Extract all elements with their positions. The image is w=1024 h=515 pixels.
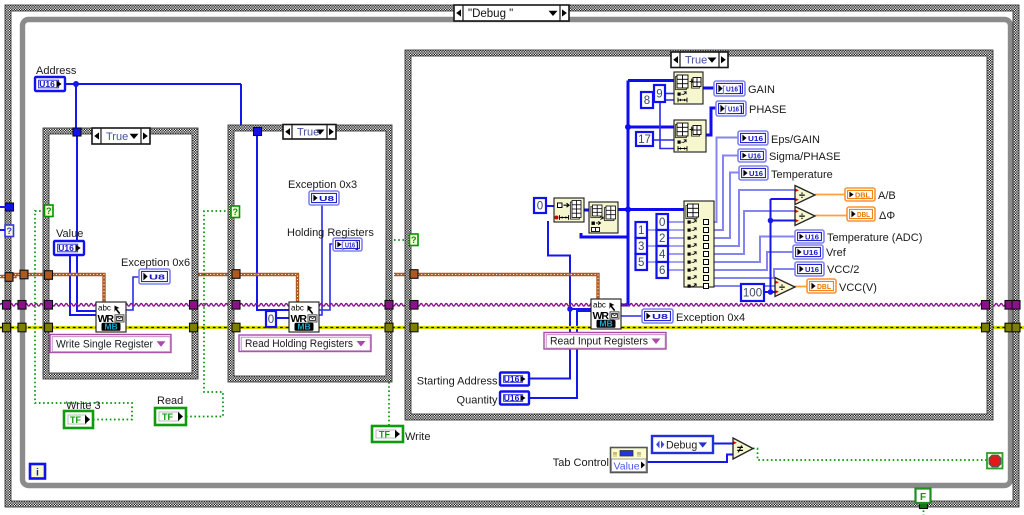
svg-text:17: 17	[638, 134, 651, 146]
svg-text:A/B: A/B	[878, 190, 896, 202]
property node Tab Control Value	[611, 448, 648, 473]
wire index const 0	[669, 221, 684, 223]
wire VISA resource	[0, 304, 1020, 307]
tunnel error outer right	[1012, 323, 1020, 332]
control Read TF	[155, 408, 186, 425]
node Array Subset 2	[674, 120, 706, 152]
tunnel VISA case1 right	[190, 301, 198, 310]
svg-text:Starting Address: Starting Address	[417, 376, 498, 388]
wire trunk to ArraySubset1	[628, 79, 674, 82]
wire 100 vertical	[770, 199, 772, 292]
constant 2 index	[657, 230, 669, 246]
wire const9	[665, 93, 674, 95]
svg-text:ΔΦ: ΔΦ	[879, 210, 895, 222]
wire Address horizontal	[62, 83, 241, 85]
svg-text:]: ]	[355, 240, 358, 251]
wire error cluster dashes	[0, 327, 1024, 329]
wire const0 to WR2	[276, 317, 290, 319]
svg-text:!!: !!	[637, 453, 641, 459]
wire cluster case2 dots	[197, 275, 298, 304]
svg-text:TF: TF	[70, 415, 81, 425]
svg-text:Holding Registers: Holding Registers	[287, 227, 374, 239]
boolean constant F	[916, 489, 931, 504]
tunnel cluster case1 left	[45, 271, 53, 280]
wire divide2 to DeltaPhi	[815, 215, 847, 217]
svg-text:VCC/2: VCC/2	[827, 264, 859, 276]
svg-text:U16: U16	[504, 374, 520, 384]
svg-text:i: i	[36, 466, 39, 478]
svg-text:U16: U16	[805, 233, 819, 242]
wire cluster left stub dots	[0, 275, 104, 304]
constant 8	[641, 92, 653, 108]
wire ArraySubset1 to GAIN	[703, 87, 714, 90]
svg-text:Vref: Vref	[826, 247, 847, 259]
svg-text:U8: U8	[652, 312, 668, 321]
svg-text:Exception 0x6: Exception 0x6	[121, 257, 190, 269]
svg-text:U16: U16	[504, 393, 520, 403]
svg-text:U16: U16	[39, 79, 55, 89]
control Starting Address U16	[500, 373, 529, 386]
wire Quantity up	[529, 311, 591, 398]
wire index const 5	[647, 261, 684, 263]
enum Read Input Registers	[544, 333, 666, 350]
svg-text:4: 4	[659, 249, 666, 261]
control Address U16	[35, 77, 65, 91]
wire cluster case2	[197, 275, 298, 304]
svg-text:Debug: Debug	[666, 440, 697, 452]
control Quantity U16	[500, 392, 529, 405]
control Write TF	[372, 426, 403, 442]
wire Read boolean	[186, 211, 229, 417]
svg-text:TF: TF	[379, 429, 390, 439]
constant 3	[636, 238, 648, 254]
wire F constant	[923, 502, 925, 515]
svg-text:True: True	[685, 55, 707, 67]
svg-text:Read Holding Registers: Read Holding Registers	[245, 338, 353, 350]
wire Write3 boolean	[35, 211, 132, 420]
svg-text:1: 1	[638, 225, 644, 237]
svg-text:U16: U16	[748, 152, 761, 161]
tunnel Address case2 top	[254, 128, 262, 136]
wire WR1 to Exception0x6	[126, 277, 139, 310]
svg-text:Write 3: Write 3	[66, 400, 101, 412]
tunnel Address outer	[6, 203, 14, 211]
wire const0 to nodeA	[546, 205, 554, 207]
svg-text:?: ?	[46, 206, 52, 216]
svg-text:Temperature (ADC): Temperature (ADC)	[827, 232, 922, 244]
case selector True 1	[92, 128, 150, 144]
constant 0 index	[657, 214, 669, 230]
indicator VCC2 U16	[795, 262, 824, 276]
svg-text:0: 0	[659, 217, 665, 229]
wire stop boolean	[753, 449, 987, 461]
svg-text:?: ?	[411, 235, 417, 245]
wire out divide1 a	[714, 190, 795, 246]
svg-text:Read: Read	[157, 395, 183, 407]
wire array trunk vertical	[627, 81, 630, 306]
wire out TempADC	[714, 237, 795, 263]
wire Value prop to neq	[647, 455, 733, 463]
tunnel error case1 right	[190, 323, 198, 332]
svg-text:3: 3	[638, 241, 644, 253]
svg-text:GAIN: GAIN	[748, 84, 775, 96]
junction trunk1	[625, 124, 631, 130]
svg-text:U16: U16	[58, 243, 74, 253]
case structure 1	[43, 128, 198, 379]
svg-text:MB: MB	[297, 322, 310, 332]
svg-text:DBL: DBL	[817, 282, 831, 291]
tunnel error case3 left	[410, 323, 418, 332]
svg-text:]: ]	[738, 84, 741, 95]
svg-text:Temperature: Temperature	[771, 169, 833, 181]
svg-text:Exception 0x3: Exception 0x3	[288, 179, 357, 191]
svg-text:≠: ≠	[737, 444, 743, 456]
constant 5	[636, 254, 648, 270]
constant 9	[654, 85, 665, 102]
indicator Holding Registers U16 array	[333, 238, 362, 251]
svg-text:abc: abc	[98, 304, 111, 313]
wire 100 to divide3 b	[764, 291, 776, 293]
svg-text:F: F	[920, 492, 926, 503]
node Initialize Array	[554, 198, 584, 222]
case selector Debug	[454, 5, 569, 21]
svg-text:÷: ÷	[799, 190, 805, 202]
wire index const 4	[669, 253, 684, 255]
wire const8	[653, 99, 674, 101]
wire out EpsGAIN	[714, 138, 738, 223]
tunnel boolean case3 left	[410, 234, 419, 246]
node Array Subset 1	[674, 72, 703, 104]
indicator PHASE U16 array	[716, 101, 746, 116]
indicator Exception 0x6 U8	[139, 269, 170, 284]
svg-text:TF: TF	[162, 412, 173, 422]
svg-text:U8: U8	[149, 273, 165, 282]
svg-text:U8: U8	[319, 194, 334, 203]
junction Address	[73, 81, 79, 87]
svg-text:Eps/GAIN: Eps/GAIN	[771, 134, 820, 146]
svg-text:!!: !!	[613, 453, 617, 459]
svg-text:abc: abc	[593, 301, 606, 310]
tunnel error outer left	[3, 323, 11, 332]
case structure 2	[228, 125, 392, 382]
wire const17	[653, 139, 674, 141]
tunnel cluster case2 left	[232, 270, 240, 279]
wire out SigmaPHASE	[714, 156, 738, 231]
node Index Array	[684, 201, 714, 289]
wire Address drop case2	[240, 84, 242, 129]
wire Write boolean a	[394, 239, 410, 241]
constant 0 case3	[534, 198, 546, 213]
svg-text:9: 9	[656, 89, 662, 101]
tunnel VISA case3 right	[982, 301, 990, 310]
tunnel boolean case1 left	[45, 205, 54, 217]
wire nodeB to IndexArray	[618, 208, 684, 211]
svg-text:DBL: DBL	[857, 210, 870, 219]
svg-text:Tab Control: Tab Control	[553, 457, 609, 469]
wire WR3 registers out	[621, 304, 628, 307]
svg-text:U16: U16	[345, 241, 355, 250]
case structure 3	[405, 50, 993, 420]
tunnel VISA while left	[18, 301, 26, 310]
svg-text:U16: U16	[803, 248, 818, 257]
wire Address outer stub	[0, 206, 6, 208]
tunnel cluster case3 left	[410, 270, 418, 279]
divide node 2	[795, 207, 815, 226]
svg-text:Read Input Registers: Read Input Registers	[550, 336, 648, 348]
svg-text:0: 0	[268, 314, 274, 326]
svg-text:Exception 0x4: Exception 0x4	[676, 312, 745, 324]
tunnel error case2 right	[385, 323, 393, 332]
tunnel error while right	[1005, 323, 1013, 332]
wire trunk to ArraySubset2	[628, 126, 674, 129]
tunnel unwired outer left	[5, 225, 14, 237]
wire Address drop case1	[75, 84, 77, 130]
svg-text:MB: MB	[599, 319, 612, 329]
svg-text:True: True	[106, 131, 128, 143]
wire StartingAddress up	[529, 309, 570, 379]
indicator TemperatureADC U16	[795, 230, 824, 243]
constant 17	[636, 132, 653, 146]
constant 100	[741, 284, 764, 301]
svg-text:VCC(V): VCC(V)	[839, 282, 877, 294]
indicator DeltaPhi DBL	[847, 207, 875, 221]
wire cluster left stub	[0, 275, 104, 304]
control Write3 TF	[64, 411, 93, 428]
indicator GAIN U16 array	[714, 81, 745, 96]
node Reshape Array	[589, 202, 618, 233]
indicator Exception 0x3 U8	[309, 191, 339, 205]
indicator EpsGAIN U16	[738, 131, 768, 145]
svg-text:"Debug ": "Debug "	[468, 8, 513, 20]
tunnel VISA while right	[1005, 301, 1013, 310]
tunnel VISA case3 left	[410, 301, 418, 310]
wire index const 6	[669, 269, 684, 271]
stop button terminal	[987, 453, 1003, 469]
control Value U16	[54, 241, 84, 255]
wire divide3 to VCCV	[794, 286, 807, 288]
case selector True 2	[283, 125, 336, 140]
svg-text:Quantity: Quantity	[457, 395, 498, 407]
junction StartingAddress	[567, 306, 573, 312]
svg-text:abc: abc	[291, 304, 304, 313]
constant 1	[636, 222, 648, 238]
wire Write boolean b	[388, 382, 390, 426]
wire Value to WR1	[70, 255, 96, 315]
svg-text:5: 5	[638, 257, 644, 269]
wire 100 to divide1 b	[771, 198, 796, 200]
wire index const 2	[669, 237, 684, 239]
wire index const 1	[647, 229, 684, 231]
divide node 1	[795, 186, 815, 205]
tunnel VISA case1 left	[45, 301, 53, 310]
case selector True 3	[671, 52, 728, 68]
indicator Exception 0x4 U8	[642, 309, 673, 323]
tunnel VISA outer left	[3, 301, 11, 310]
indicator VCCV DBL	[807, 279, 836, 293]
not-equal node	[733, 438, 753, 459]
enum Write Single Register	[50, 335, 171, 353]
constant 4 index	[657, 246, 669, 262]
junction 100 b	[768, 218, 774, 224]
tunnel VISA outer right	[1012, 301, 1020, 310]
svg-text:?: ?	[233, 207, 239, 217]
tunnel Address case1 top	[73, 128, 81, 136]
wire out VCC2	[714, 269, 795, 278]
svg-text:100: 100	[743, 288, 762, 300]
wire const9 down	[660, 102, 674, 149]
svg-text:True: True	[297, 127, 319, 139]
svg-text:Write: Write	[405, 431, 430, 443]
svg-text:2: 2	[659, 233, 665, 245]
wire error cluster	[0, 326, 1024, 329]
wire ArraySubset2 to PHASE	[706, 108, 716, 135]
svg-text:8: 8	[644, 95, 650, 107]
WR MB node 1 Write Single Register	[96, 302, 126, 332]
wire out divide2 a	[714, 211, 795, 254]
svg-text:U16: U16	[749, 169, 763, 178]
indicator Temperature U16	[739, 166, 768, 180]
wire Address inside case2	[257, 133, 290, 310]
wire DebugEnum to neq	[713, 443, 733, 445]
wire trunk to nodeB bottom	[581, 233, 628, 237]
WR MB node 2 Read Holding Registers	[289, 302, 319, 332]
indicator SigmaPHASE U16	[738, 149, 766, 162]
wire out divide3 a	[714, 283, 779, 286]
wire out Temperature	[714, 173, 739, 239]
tunnel error while left	[18, 323, 26, 332]
wire WR2 to Exception0x3	[319, 205, 322, 315]
svg-text:U16: U16	[726, 85, 738, 94]
svg-text:÷: ÷	[779, 282, 785, 294]
svg-text:?: ?	[7, 226, 13, 236]
svg-text:Value: Value	[614, 461, 640, 473]
svg-text:Value: Value	[56, 228, 83, 240]
wire divide1 to AB	[815, 194, 845, 196]
wire nodeA to nodeB	[584, 209, 589, 212]
svg-text:U16: U16	[805, 265, 819, 274]
constant 6 index	[657, 262, 669, 278]
svg-text:0: 0	[537, 201, 543, 213]
wire index const 3	[647, 245, 684, 247]
tunnel cluster outer left	[5, 273, 13, 282]
enum constant Debug	[652, 436, 713, 453]
tunnel VISA case2 left	[232, 301, 240, 310]
junction trunk2	[625, 207, 631, 213]
tunnel error case2 left	[232, 323, 240, 332]
svg-text:DBL: DBL	[855, 191, 870, 200]
wire WR3 to Exception0x4	[621, 315, 642, 317]
tunnel cluster while left	[20, 270, 28, 279]
wire out Vref	[714, 252, 793, 270]
wire cluster case3	[394, 275, 598, 301]
tunnel error case1 left	[45, 323, 53, 332]
svg-text:÷: ÷	[799, 211, 805, 223]
svg-text:U16: U16	[728, 105, 739, 114]
tunnel boolean case2 left	[231, 206, 240, 218]
svg-text:]: ]	[739, 104, 742, 115]
WR MB node 3 Read Input Registers	[591, 299, 621, 329]
loop iteration terminal i	[30, 464, 45, 479]
wire WR2 to HoldingRegisters	[319, 244, 333, 310]
svg-text:Write Single Register: Write Single Register	[56, 338, 153, 350]
wire unwired stub	[0, 229, 5, 231]
svg-text:Sigma/PHASE: Sigma/PHASE	[769, 151, 841, 163]
wire 100 to divide2 b	[771, 220, 796, 222]
constant 0 case2	[266, 311, 276, 327]
divide node 3	[775, 278, 795, 297]
svg-text:Address: Address	[36, 65, 77, 77]
svg-text:6: 6	[659, 265, 665, 277]
tunnel error case3 right	[982, 323, 990, 332]
indicator AB DBL	[845, 188, 875, 201]
indicator Vref U16	[793, 245, 823, 259]
wire Address inside case1	[77, 134, 96, 311]
wire cluster case3 dots	[394, 275, 598, 301]
svg-text:PHASE: PHASE	[749, 104, 786, 116]
wire nodeA dim input	[548, 221, 591, 309]
svg-text:U16: U16	[748, 134, 763, 143]
svg-text:MB: MB	[104, 322, 117, 332]
tunnel VISA case2 right	[385, 301, 393, 310]
tunnel F constant	[920, 501, 928, 509]
enum Read Holding Registers	[239, 335, 371, 352]
junction 100 a	[768, 289, 774, 295]
